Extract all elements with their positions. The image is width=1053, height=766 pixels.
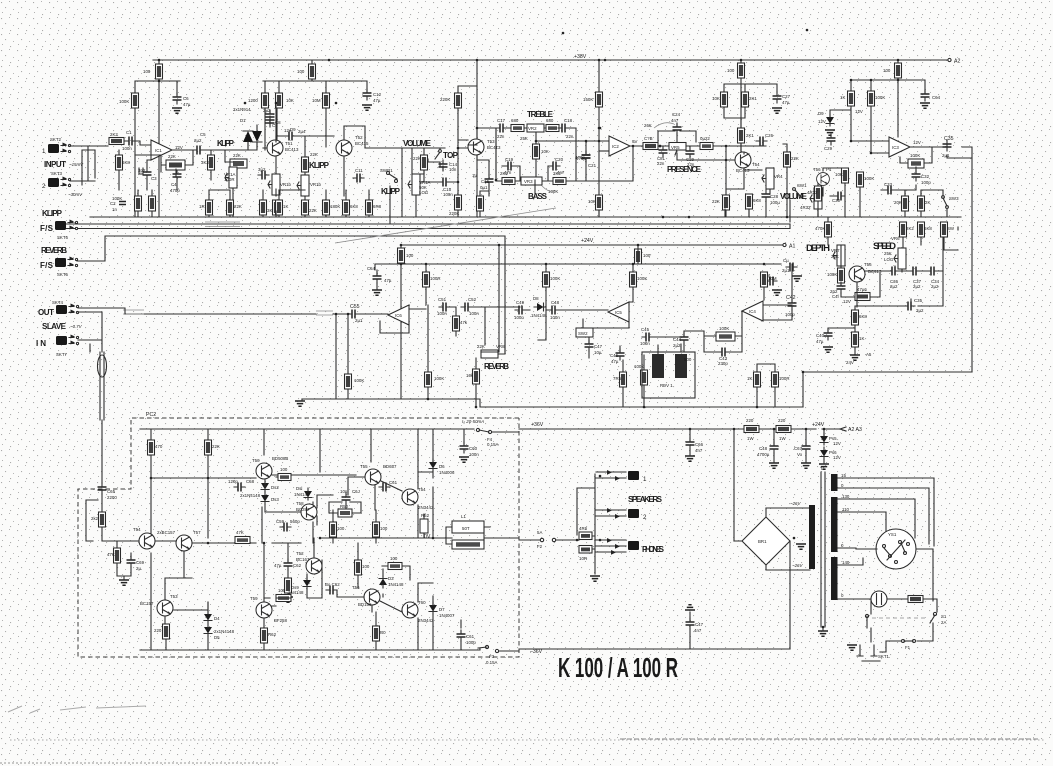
wire T52 emitter etc	[276, 126, 344, 217]
transistor T60 output low	[402, 602, 418, 618]
wire interstage to T52	[276, 136, 334, 175]
svg-text:C44: C44	[673, 337, 682, 342]
svg-text:2200: 2200	[107, 495, 117, 500]
svg-text:T56: T56	[352, 585, 360, 590]
transformer core laminations	[821, 472, 825, 627]
resistor 100 t42	[355, 560, 362, 575]
svg-text:BD508B: BD508B	[272, 456, 288, 461]
svg-text:~26V: ~26V	[792, 563, 803, 568]
svg-text:F1: F1	[905, 645, 911, 650]
wire tier1 resistor row stubs	[209, 126, 921, 217]
resistor 681R treble	[511, 125, 524, 132]
pot VR4	[762, 168, 774, 189]
resistor 2K2 bass b	[553, 178, 566, 185]
svg-text:100p: 100p	[466, 640, 476, 645]
svg-text:1: 1	[42, 148, 46, 155]
svg-text:BC413: BC413	[285, 147, 299, 152]
voltage selector YS1	[876, 529, 916, 569]
svg-text:IC6: IC6	[395, 313, 402, 318]
svg-text:100p: 100p	[921, 180, 931, 185]
transistor T53	[468, 139, 484, 155]
svg-text:100: 100	[278, 588, 286, 593]
svg-text:22K: 22K	[309, 208, 317, 213]
svg-text:100R: 100R	[224, 177, 235, 182]
resistor 1K osc bottom	[852, 332, 859, 347]
svg-text:F/S: F/S	[40, 261, 54, 270]
pot VR6 speed	[894, 248, 906, 269]
svg-text:C46: C46	[610, 353, 619, 358]
ground core	[818, 631, 828, 636]
capacitor osc chain C36	[888, 267, 899, 276]
svg-text:100K: 100K	[550, 276, 560, 281]
svg-text:1N4007: 1N4007	[439, 613, 455, 618]
wire IC3 feedback	[900, 147, 932, 190]
svg-text:47µ6: 47µ6	[857, 287, 867, 292]
svg-text:SKT1: SKT1	[878, 654, 890, 659]
capacitor C49 100n	[515, 306, 526, 315]
svg-text:100: 100	[390, 556, 398, 561]
svg-text:VOLUME: VOLUME	[780, 192, 808, 201]
svg-text:Vo: Vo	[797, 452, 803, 457]
transformer secondary bar top	[831, 474, 838, 491]
faint fold line bottom left	[0, 762, 280, 764]
resistor 100K out line b	[425, 372, 432, 387]
svg-text:680: 680	[546, 118, 554, 123]
transistor T52b vas	[306, 558, 322, 574]
diode Dsl	[304, 488, 312, 500]
wire IC3 output	[910, 144, 972, 372]
svg-text:100: 100	[280, 467, 288, 472]
svg-text:C61: C61	[466, 634, 475, 639]
diode D8	[534, 303, 546, 311]
wire T51 stage	[225, 103, 276, 217]
svg-text:VR6: VR6	[891, 236, 900, 241]
svg-text:100K: 100K	[864, 176, 874, 181]
svg-text:A1: A1	[789, 244, 795, 250]
resistor 22K T54 collector	[784, 152, 791, 167]
svg-text:2: 2	[42, 183, 46, 190]
faint corner marks bottom left	[8, 706, 146, 713]
svg-text:T51: T51	[285, 141, 293, 146]
resistor 22K bottom	[723, 195, 730, 210]
reverb tank REV1 outline	[642, 352, 695, 398]
wire second stage verticals	[265, 108, 326, 150]
svg-text:22K: 22K	[712, 199, 720, 204]
svg-text:F3: F3	[489, 654, 495, 659]
shield dashes on klipp bus	[205, 222, 240, 227]
svg-text:2K2: 2K2	[110, 132, 118, 137]
svg-text:47K: 47K	[236, 530, 244, 535]
presence cap C24 4n7	[673, 123, 682, 134]
svg-text:SW2: SW2	[578, 331, 588, 336]
wire pcb input net	[86, 494, 110, 541]
resistor 22K pcb	[205, 440, 212, 455]
svg-text:T57: T57	[193, 530, 201, 535]
svg-text:2µ2: 2µ2	[931, 284, 939, 289]
diode D4	[204, 611, 212, 623]
svg-text:100K: 100K	[637, 276, 647, 281]
capacitor C14 10n	[439, 160, 448, 171]
power amp PCB dashed outline	[78, 418, 519, 657]
pot VR1B	[268, 174, 280, 195]
resistor 1K ic3 rail a	[848, 91, 855, 106]
resistor 47k fb	[453, 316, 460, 331]
svg-text:100k: 100k	[634, 364, 644, 369]
speaker jack 2	[596, 510, 626, 516]
wire IC6 loop	[336, 309, 426, 399]
svg-text:47µ: 47µ	[183, 102, 191, 107]
svg-text:C6J: C6J	[352, 489, 360, 494]
svg-text:T54: T54	[133, 527, 141, 532]
pot VR1A 50K LOG volume	[408, 174, 420, 195]
capacitor C21 470u	[582, 151, 591, 162]
resistor 6K8 row	[343, 200, 350, 215]
resistor 100K ic4 fb	[716, 332, 735, 341]
capacitor C23 22n	[659, 146, 668, 157]
svg-text:2µ2: 2µ2	[916, 308, 924, 313]
svg-text:IC1: IC1	[155, 148, 162, 153]
ground C48	[769, 463, 779, 468]
svg-text:DEPTH: DEPTH	[806, 243, 830, 254]
svg-text:T56: T56	[813, 167, 821, 172]
svg-text:26K: 26K	[644, 123, 652, 128]
capacitor tremolo C a	[786, 263, 797, 272]
svg-text:R50: R50	[340, 504, 349, 509]
resistor 3K3 row	[260, 200, 267, 215]
ground below C6	[172, 108, 182, 113]
ground mains	[847, 645, 857, 650]
wire bass wiper down	[542, 186, 554, 192]
svg-text:1n: 1n	[112, 207, 117, 212]
svg-text:2N3442: 2N3442	[418, 505, 434, 510]
wire tier2 ground bus	[302, 399, 803, 407]
resistor 100 (rail, input stage)	[156, 64, 163, 79]
resistor 220K T53	[455, 93, 462, 108]
svg-text:0.15A: 0.15A	[486, 660, 498, 665]
svg-text:10K: 10K	[835, 172, 843, 177]
capacitor tremolo C b	[766, 277, 777, 286]
svg-text:100n: 100n	[437, 311, 447, 316]
svg-text:SKT2: SKT2	[50, 137, 62, 142]
svg-text:SWR1: SWR1	[380, 168, 393, 173]
svg-text:Ds2: Ds2	[271, 485, 279, 490]
svg-text:C29: C29	[824, 146, 833, 151]
svg-text:C26: C26	[765, 133, 774, 138]
transistor T56b lower driver	[364, 589, 380, 605]
svg-text:KLIPP: KLIPP	[381, 187, 401, 196]
svg-text:25K: 25K	[831, 254, 839, 259]
svg-text:D4: D4	[214, 616, 220, 621]
resistor 47K input low	[114, 548, 121, 563]
switch SWR1 klipp	[387, 172, 390, 175]
svg-text:22K: 22K	[212, 444, 220, 449]
shield dashes out line	[123, 310, 333, 315]
svg-text:REVERB: REVERB	[41, 246, 67, 255]
switch reverb mute	[576, 328, 593, 337]
resistor 150K	[596, 92, 603, 107]
svg-text:D1: D1	[240, 118, 246, 123]
capacitor C19 47n	[504, 162, 515, 171]
svg-text:100µ: 100µ	[770, 200, 780, 205]
svg-text:C?B: C?B	[644, 136, 653, 141]
resistor 680 treble b	[546, 125, 559, 132]
pot VR8 reverb 22K	[481, 350, 498, 358]
svg-text:T54: T54	[752, 162, 760, 167]
svg-text:C54: C54	[367, 266, 376, 271]
svg-text:BC167: BC167	[296, 557, 310, 562]
capacitor C67	[802, 442, 811, 453]
svg-text:100n: 100n	[469, 452, 479, 457]
pot VR second klipp	[297, 175, 309, 196]
svg-text:SKT7: SKT7	[56, 352, 68, 357]
resistor 6R8 row	[366, 200, 373, 215]
svg-text:+38V: +38V	[574, 54, 587, 60]
capacitor C27 47u	[773, 92, 782, 103]
svg-text:100K: 100K	[875, 95, 885, 100]
transistor T52	[336, 140, 352, 156]
svg-text:15: 15	[841, 473, 846, 478]
svg-text:7R5: 7R5	[613, 376, 622, 381]
svg-text:D5: D5	[214, 635, 220, 640]
svg-text:180K: 180K	[330, 204, 340, 209]
resistor 100K ic5 a	[543, 272, 550, 287]
svg-text:4R32: 4R32	[807, 190, 818, 195]
svg-text:2k2: 2k2	[91, 516, 99, 521]
capacitor C16	[485, 175, 494, 186]
svg-text:47µ: 47µ	[274, 563, 282, 568]
wire lamp nets	[887, 599, 937, 612]
svg-text:C2: C2	[110, 201, 116, 206]
svg-text:C32: C32	[921, 174, 930, 179]
capacitor C8 2u2	[266, 110, 275, 121]
svg-text:IC5: IC5	[615, 310, 622, 315]
svg-text:1µ: 1µ	[472, 173, 477, 178]
inductor L1 50T	[452, 521, 484, 533]
wire IC5 nets	[583, 245, 638, 328]
svg-text:25K: 25K	[520, 136, 528, 141]
wire T53 collector to treble network	[468, 128, 499, 180]
switch SW3	[942, 196, 945, 199]
svg-text:C48: C48	[759, 446, 768, 451]
svg-text:SKT6: SKT6	[57, 235, 69, 240]
svg-text:PC2: PC2	[146, 412, 156, 418]
svg-text:1W: 1W	[779, 436, 786, 441]
transistor T51	[267, 140, 283, 156]
wire into IC2	[599, 150, 609, 152]
svg-text:VR7: VR7	[831, 248, 840, 253]
capacitor C9 2u4	[285, 132, 296, 141]
resistor 100K osc	[838, 268, 845, 283]
diode D1	[243, 131, 253, 142]
svg-text:D6: D6	[439, 464, 445, 469]
svg-text:SLAVE: SLAVE	[42, 322, 67, 331]
capacitor C33	[884, 186, 895, 195]
svg-text:BC287: BC287	[296, 507, 310, 512]
wire rail drop x599 tone stage	[598, 60, 600, 217]
resistor 10K	[276, 93, 283, 108]
svg-text:10µ: 10µ	[594, 350, 602, 355]
svg-text:100: 100	[406, 253, 414, 258]
svg-text:12V: 12V	[843, 299, 851, 304]
resistor 100 t50	[278, 474, 291, 481]
svg-text:BC413: BC413	[487, 145, 501, 150]
svg-text:100K: 100K	[910, 153, 920, 158]
resistor 100 vas	[276, 595, 291, 602]
svg-text:A5: A5	[866, 352, 872, 357]
wire d4d5	[207, 602, 209, 650]
diode D3b output	[379, 576, 387, 588]
svg-text:2µ: 2µ	[136, 566, 141, 571]
resistor 1K5 IC2 out	[643, 143, 658, 150]
wire into IC5	[526, 309, 608, 311]
svg-text:R52: R52	[421, 513, 430, 518]
resistor 100K input stage	[132, 93, 139, 108]
transistor T54b	[402, 489, 418, 505]
resistor 1200	[262, 93, 269, 108]
diode D6	[429, 459, 437, 471]
resistor 2K2 speed	[900, 222, 907, 237]
wire tremolo connections	[818, 168, 860, 217]
resistor 100 presence	[738, 63, 745, 78]
svg-text:BC415: BC415	[355, 141, 369, 146]
svg-text:100n: 100n	[443, 192, 453, 197]
svg-text:12V: 12V	[833, 455, 841, 460]
wire t59 nets	[262, 507, 276, 650]
svg-text:PHONES: PHONES	[642, 545, 665, 554]
wire tremolo osc nets	[828, 217, 958, 307]
svg-text:C49: C49	[516, 300, 525, 305]
svg-text:100n: 100n	[469, 311, 479, 316]
resistor 6K8 bias	[116, 155, 123, 170]
svg-text:Cµ: Cµ	[783, 258, 789, 263]
capacitor C58 120p	[234, 483, 245, 492]
op-amp IC2	[609, 136, 630, 156]
svg-text:4700µ: 4700µ	[757, 452, 770, 457]
wire bridge feed vertical	[733, 429, 735, 541]
capacitor C62 47u	[284, 559, 293, 570]
svg-text:22K: 22K	[168, 154, 176, 159]
svg-text:4n7: 4n7	[671, 118, 679, 123]
svg-text:BC157: BC157	[140, 601, 154, 606]
svg-text:47µ: 47µ	[373, 98, 381, 103]
svg-text:I₀ 20-50mA: I₀ 20-50mA	[462, 419, 484, 424]
diode Ds2	[261, 480, 269, 492]
svg-text:100K: 100K	[827, 272, 837, 277]
phones jack	[596, 540, 626, 552]
svg-text:C60: C60	[469, 446, 478, 451]
wire speaker bus	[577, 474, 595, 574]
capacitor C8	[266, 116, 275, 127]
svg-text:220: 220	[746, 418, 754, 423]
svg-text:C3: C3	[151, 176, 157, 181]
svg-text:Dsl: Dsl	[296, 486, 302, 491]
ground C60	[459, 457, 469, 462]
svg-text:VR3: VR3	[524, 179, 533, 184]
selector pins	[883, 545, 886, 548]
svg-text:VR1b: VR1b	[280, 182, 292, 187]
svg-text:T52: T52	[296, 551, 304, 556]
svg-text:C48: C48	[551, 300, 560, 305]
resistor 1K2 t59	[261, 628, 268, 643]
resistor 220K lower	[455, 195, 462, 210]
svg-text:100: 100	[883, 68, 891, 73]
capacitor C12 47u	[363, 89, 372, 100]
wire cable continues	[101, 420, 103, 483]
svg-text:22K: 22K	[234, 204, 242, 209]
svg-text:0V: 0V	[424, 534, 431, 540]
svg-text:1K: 1K	[747, 376, 752, 381]
svg-text:D8: D8	[533, 296, 539, 301]
svg-text:220: 220	[778, 418, 786, 423]
wire klipp bus risers at x790	[790, 183, 818, 222]
op-amp IC6	[388, 305, 409, 325]
svg-text:220: 220	[154, 628, 162, 633]
resistor 220 1W b	[776, 426, 791, 433]
resistor 3K3	[208, 155, 215, 170]
resistor 4K7	[815, 186, 822, 201]
wire KLIPP footswitch bus B	[62, 224, 790, 229]
svg-text:470K: 470K	[815, 226, 825, 231]
svg-text:D3: D3	[388, 576, 394, 581]
switch S1 2A	[933, 612, 936, 615]
wire coupling to klipp diodes	[204, 142, 257, 180]
resistor 470 pcb	[148, 440, 155, 455]
diode D5	[204, 624, 212, 636]
ground tremolo b	[772, 290, 782, 295]
wire bridge AC taps	[734, 508, 810, 649]
svg-text:680: 680	[511, 118, 519, 123]
wire input stage sub-rail	[135, 81, 180, 217]
transistor T56 tremolo osc	[849, 266, 865, 282]
wire presence wiper to T54 base	[675, 146, 735, 195]
wire pcb 0V rail	[110, 538, 436, 543]
wire KLIPP footswitch bus A	[62, 223, 790, 225]
svg-text:T55: T55	[360, 464, 368, 469]
svg-text:C40: C40	[816, 333, 825, 338]
resistor 1K row	[276, 200, 283, 215]
wire input jack wiring	[70, 146, 108, 185]
svg-text:47µ: 47µ	[384, 278, 392, 283]
resistor 6K8 osc bottom	[852, 310, 859, 325]
capacitor C61 100p	[457, 630, 466, 641]
wire presence output stage	[726, 144, 787, 217]
capacitor C6J 10n	[342, 493, 351, 504]
svg-text:1N4146: 1N4146	[294, 492, 310, 497]
resistor 2K2 series input	[109, 138, 124, 145]
svg-text:KLIPP: KLIPP	[309, 161, 330, 170]
svg-text:110: 110	[842, 507, 850, 512]
transistor T55	[365, 469, 381, 485]
svg-text:470p: 470p	[170, 188, 180, 193]
capacitor Bo C62b	[326, 586, 337, 595]
wire T54 base	[741, 143, 744, 152]
svg-text:L1: L1	[461, 514, 466, 519]
capacitor C25 22n	[686, 147, 695, 158]
capacitor C43 230p	[718, 348, 729, 357]
resistor 2k2 input	[99, 512, 106, 527]
svg-text:2K2: 2K2	[553, 171, 561, 176]
pot VR3 bass 100K	[521, 177, 542, 185]
wire OUT line to IC6	[125, 313, 388, 315]
transformer secondary bar low	[831, 557, 838, 600]
svg-text:100K: 100K	[119, 99, 129, 104]
svg-text:2µ1: 2µ1	[355, 318, 363, 323]
resistor 100K ic3 rail b	[868, 91, 875, 106]
resistor 10R emitter T53	[477, 196, 484, 211]
svg-text:BF258: BF258	[274, 618, 287, 623]
resistor 180K row	[323, 200, 330, 215]
svg-text:IC4: IC4	[749, 309, 756, 314]
